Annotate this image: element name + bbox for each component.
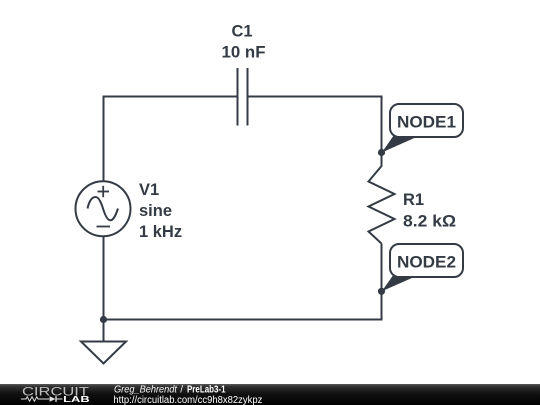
svg-text:PreLab3-1: PreLab3-1 <box>187 385 226 396</box>
svg-text:sine: sine <box>139 202 172 220</box>
junction dot ground node <box>100 316 107 323</box>
svg-text:http://circuitlab.com/cc9h8x82: http://circuitlab.com/cc9h8x82zykpz <box>113 395 262 405</box>
svg-text:C1: C1 <box>231 23 252 41</box>
svg-text:V1: V1 <box>139 181 159 199</box>
svg-text:10 nF: 10 nF <box>222 43 266 61</box>
svg-text:NODE2: NODE2 <box>397 252 456 271</box>
resistor R1 <box>369 166 395 244</box>
wire (V1 bottom to ground node) <box>103 236 105 320</box>
node NODE1 callout <box>382 104 463 153</box>
svg-text:R1: R1 <box>403 191 424 209</box>
svg-text:LAB: LAB <box>63 394 89 404</box>
footer credit line <box>114 385 226 396</box>
node NODE2 callout <box>382 244 463 291</box>
svg-text:8.2 kΩ: 8.2 kΩ <box>403 213 456 231</box>
junction dot node1 <box>378 149 385 156</box>
svg-text:1 kHz: 1 kHz <box>139 223 182 241</box>
svg-text:NODE1: NODE1 <box>397 112 456 131</box>
CircuitLab logo <box>21 385 90 404</box>
wire (R1 bottom down, across bottom to ground node) <box>104 244 382 320</box>
wire (C1 right plate to corner down to R1) <box>249 97 382 167</box>
ground <box>81 320 126 364</box>
svg-text:/: / <box>180 385 183 396</box>
capacitor C1 <box>238 68 248 126</box>
voltage source V1 <box>76 181 131 236</box>
svg-text:Greg_Behrendt: Greg_Behrendt <box>114 385 178 396</box>
wire (V1 top to corner to C1 left plate) <box>104 97 237 182</box>
junction dot node2 <box>378 288 385 295</box>
footer bar <box>0 384 540 405</box>
